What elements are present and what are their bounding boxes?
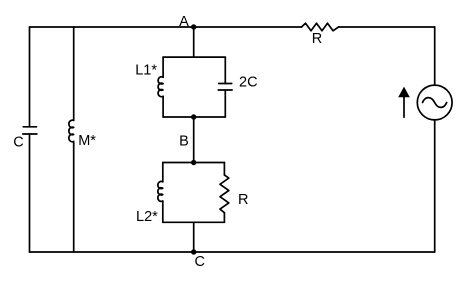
upper tank left wire (top) — [162, 57, 164, 77]
lower tank right wire (top) — [223, 163, 225, 176]
svg-text:R: R — [312, 31, 322, 47]
wire node A down to upper tank — [193, 27, 195, 57]
AC source V1 circle — [417, 85, 452, 120]
label L2* — [136, 209, 158, 225]
capacitor 2C — [218, 84, 232, 91]
label B — [179, 134, 189, 150]
label L1* — [135, 63, 157, 79]
wire top-mid: node A to resistor R start — [194, 26, 302, 28]
node C — [191, 249, 196, 254]
lower tank right wire (bottom) — [223, 213, 225, 223]
svg-text:C: C — [13, 134, 23, 150]
label R (lower tank) — [238, 192, 248, 208]
node A — [191, 24, 196, 29]
wire right upper: top-right corner down to source — [434, 27, 436, 85]
wire M branch upper — [73, 27, 75, 120]
wire top-left: top rail from left corner to node A — [30, 26, 194, 28]
label A — [179, 14, 189, 30]
svg-text:M*: M* — [78, 133, 96, 149]
node B — [191, 160, 196, 165]
current direction arrow (up) — [398, 87, 410, 118]
junction at upper tank bottom — [191, 114, 196, 119]
upper tank bottom wire — [163, 116, 225, 118]
upper tank right wire (bottom) — [224, 90, 226, 117]
lower tank top wire — [163, 162, 225, 164]
svg-text:L1*: L1* — [135, 63, 157, 79]
label C (bottom) — [195, 254, 205, 270]
wire top-right: resistor to top-right corner — [339, 26, 435, 28]
wire lower tank to node C — [193, 222, 195, 252]
inductor L2* — [158, 181, 163, 201]
wire bottom rail — [30, 251, 435, 253]
svg-text:A: A — [179, 14, 189, 30]
svg-text:C: C — [195, 254, 205, 270]
upper tank top wire — [163, 56, 225, 58]
label M* — [78, 133, 96, 149]
label C (left) — [13, 134, 23, 150]
inductor M* — [69, 120, 74, 142]
label 2C — [239, 74, 258, 90]
svg-text:L2*: L2* — [136, 209, 158, 225]
upper tank left wire (bottom) — [162, 96, 164, 117]
label R (top) — [312, 31, 322, 47]
lower tank left wire (top) — [162, 163, 164, 182]
wire left lower: capacitor down to bottom-left corner — [29, 134, 31, 252]
svg-text:2C: 2C — [239, 74, 258, 90]
AC source sine wave — [423, 98, 447, 108]
wire right lower: source down to bottom-right corner — [434, 120, 436, 252]
capacitor C — [23, 127, 37, 134]
inductor L1* — [158, 77, 163, 97]
wire M branch lower — [73, 142, 75, 253]
wire left upper: top-left corner down to capacitor C — [29, 27, 31, 127]
wire upper tank to node B — [193, 117, 195, 163]
lower tank left wire (bottom) — [162, 201, 164, 222]
svg-text:R: R — [238, 192, 248, 208]
resistor R (top rail) — [302, 23, 339, 31]
resistor R (lower tank) — [220, 175, 229, 213]
svg-text:B: B — [179, 134, 189, 150]
lower tank bottom wire — [163, 221, 225, 223]
upper tank right wire (top) — [224, 57, 226, 83]
